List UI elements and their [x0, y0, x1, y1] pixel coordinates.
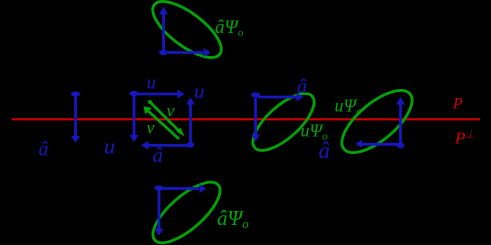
svg-text:â: â: [153, 143, 164, 167]
svg-text:v: v: [167, 101, 175, 121]
svg-text:â: â: [39, 139, 49, 161]
svg-text:v: v: [147, 118, 155, 138]
svg-text:u: u: [147, 73, 157, 94]
svg-text:u: u: [194, 79, 205, 103]
svg-text:â: â: [297, 76, 307, 98]
svg-text:P: P: [452, 96, 463, 113]
svg-text:u: u: [104, 134, 115, 159]
